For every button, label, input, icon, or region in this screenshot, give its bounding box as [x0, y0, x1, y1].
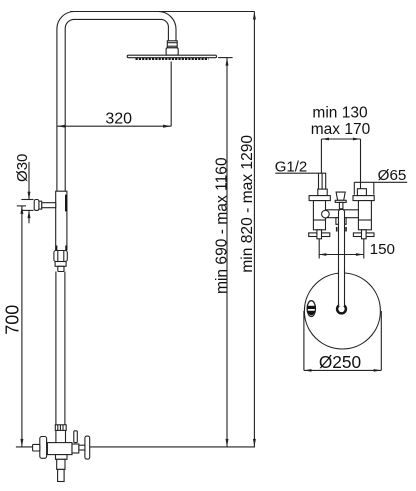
dimension 700 line: [21, 206, 23, 447]
center lower collar marks: [336, 227, 338, 232]
top extension line (arm top, extends right to outer dimension): [70, 11, 254, 13]
dimension Ø250 line: [304, 369, 381, 371]
right valve body: [358, 201, 371, 230]
valve left flange: [40, 437, 47, 459]
valve outlet tube: [57, 459, 65, 469]
svg-text:150: 150: [370, 241, 395, 258]
hand shower holder stem: [42, 203, 56, 208]
connecting arm bar: [326, 209, 359, 211]
hand shower holder flange: [34, 200, 39, 211]
dimension min820-max1290 line: [253, 12, 255, 447]
svg-text:max 170: max 170: [311, 121, 371, 138]
slider clamp dark mark: [65, 195, 67, 212]
central down pipe: [339, 209, 345, 305]
left inlet flange: [309, 196, 330, 201]
center diverter base: [335, 200, 346, 202]
valve centerline left: [16, 446, 33, 448]
center diverter knob: [336, 192, 345, 200]
logo emblem in circle: [307, 301, 315, 317]
svg-text:min 130: min 130: [312, 104, 368, 121]
union nut band: [55, 262, 66, 267]
valve cross handle bar: [85, 436, 90, 459]
dimension Ø30 upper line with down arrow: [28, 162, 30, 200]
left body knob circle: [322, 210, 330, 218]
svg-text:Ø65: Ø65: [378, 167, 407, 184]
valve centerline right: [90, 446, 255, 448]
riser lower pipe: [55, 272, 57, 425]
shower arm outer right bend: [158, 12, 176, 42]
valve left cap: [33, 444, 40, 451]
dimension 700 top tick: [17, 205, 26, 207]
150 dimension extension lines: [318, 239, 320, 259]
center diverter neck: [339, 202, 343, 208]
left inlet threaded pipe: [318, 173, 320, 189]
hand shower holder neck: [39, 201, 42, 209]
left lower flange: [309, 233, 330, 237]
shower head connector nut: [167, 41, 177, 48]
right inlet top hat: [357, 189, 366, 196]
svg-text:Ø30: Ø30: [14, 154, 31, 182]
valve body right section: [72, 444, 79, 453]
dimension Ø65 leader line: [354, 181, 407, 183]
left inlet top hat: [318, 189, 327, 196]
dimension min130/max170 line: [321, 138, 360, 140]
Ø250 extension line right: [380, 311, 382, 370]
dimension min690-max1160 top tick: [218, 57, 233, 59]
mixer valve body: [47, 443, 72, 455]
G1/2 leader line: [275, 172, 326, 174]
dimension Ø30 ticks: [21, 199, 33, 201]
shower head (side view): [127, 55, 216, 58]
dimension min690-max1160 line: [226, 58, 228, 447]
pipe end nub (dark ring): [337, 305, 346, 314]
shower head spray nozzle band: [136, 58, 209, 60]
right inlet flange: [353, 196, 374, 201]
riser sleeve (slide rail section): [56, 191, 67, 250]
head center extension line: [170, 62, 172, 127]
riser pipe and shower arm outer line: [57, 12, 74, 193]
riser pipe and shower arm inner line: [65, 19, 168, 192]
svg-text:Ø250: Ø250: [319, 352, 361, 372]
central pipe white-out over circle edge: [339, 272, 344, 306]
left inlet centerline / pipe top: [320, 139, 322, 173]
riser union nut: [54, 251, 67, 262]
dimension 320 line: [57, 125, 171, 127]
sleeve bottom thick marks: [55, 246, 57, 251]
left valve body: [313, 201, 325, 230]
union nut tip: [58, 266, 64, 271]
shower head top view circle: [304, 273, 380, 349]
right lower flange: [353, 233, 374, 237]
dimension Ø65 ticks: [353, 182, 355, 194]
valve outlet collar: [56, 455, 68, 460]
svg-text:700: 700: [3, 305, 23, 335]
center collar: [336, 218, 346, 225]
shower head connector base: [166, 48, 178, 55]
central down pipe white-out: [339, 210, 344, 273]
riser knurled joint: [55, 425, 66, 431]
left lower pin: [317, 230, 322, 239]
dimension 150 line: [319, 254, 364, 256]
svg-text:min 690 - max 1160: min 690 - max 1160: [213, 157, 230, 294]
dimension Ø30 lower line with up arrow: [28, 210, 30, 223]
right lower pin: [362, 230, 367, 239]
valve top stub: [74, 431, 78, 443]
Ø250 extension line left: [303, 311, 305, 370]
pipe below knurl: [55, 430, 57, 442]
valve outlet pipe: [58, 469, 65, 481]
valve spindle right: [79, 445, 85, 450]
svg-text:320: 320: [105, 111, 132, 128]
right inlet centerline: [360, 139, 362, 189]
central pipe over circle: [338, 271, 340, 306]
svg-text:min 820 - max 1290: min 820 - max 1290: [239, 135, 256, 273]
